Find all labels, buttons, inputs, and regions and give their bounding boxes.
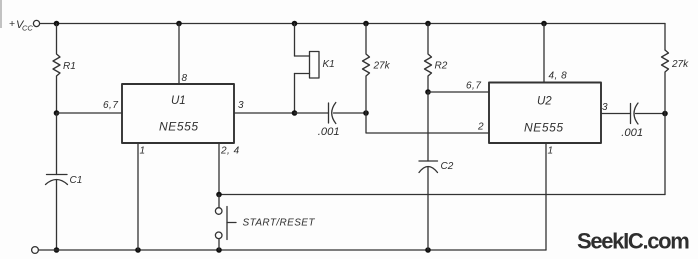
svg-text:START/RESET: START/RESET (243, 218, 316, 229)
resistor R2 (425, 24, 432, 93)
wire bottom return rail (39, 249, 546, 251)
node dot cap/27k junction (363, 110, 369, 116)
wire U2 pins 4,8 to top rail (543, 24, 545, 83)
node dot R2/top rail (425, 21, 431, 27)
node dot C1/bottom rail (54, 247, 60, 253)
terminal bottom-left open circle (32, 247, 39, 254)
resistor 27k no.1 (363, 24, 370, 114)
wire U1 pin 3 output (234, 112, 295, 114)
svg-text:.001: .001 (621, 127, 643, 139)
wire pin3 node to coupling cap (295, 112, 329, 114)
wire U1 pins 6,7 to node A (57, 112, 123, 114)
wire top supply rail (40, 23, 665, 25)
switch START/RESET pushbutton (215, 195, 236, 251)
svg-text:U1: U1 (171, 95, 186, 107)
node A dot R1/C1/pin6,7 junction (54, 110, 60, 116)
svg-text:CC: CC (22, 24, 33, 33)
node dot switch top/reset net (216, 192, 222, 198)
capacitor C2 (419, 92, 438, 250)
svg-text:+: + (9, 18, 15, 30)
node dot 27k no.1/top rail (363, 21, 369, 27)
node dot K1/top rail (292, 21, 298, 27)
wire right rail down from top corner to 27k (664, 24, 666, 51)
wire U1 pins 2,4 down to reset net (218, 143, 220, 195)
node dot U1 pin 8/top rail (176, 21, 182, 27)
svg-text:R2: R2 (435, 61, 448, 72)
node dot K1/pin3 wire (292, 110, 298, 116)
IC U1 NE555 box (122, 84, 234, 143)
node dot cap2/right rail (662, 111, 668, 117)
node dot C2/bottom rail (425, 247, 431, 253)
label +Vcc (9, 18, 33, 33)
svg-text:SeekIC.com: SeekIC.com (577, 229, 689, 254)
node dot R2/C2/pin6,7 junction (425, 89, 431, 95)
terminal +Vcc open circle (33, 20, 39, 26)
wire right rail down to reset net (664, 114, 666, 195)
wire reset net back to switch (219, 194, 665, 196)
svg-text:6,7: 6,7 (103, 100, 118, 111)
svg-text:27k: 27k (373, 61, 391, 72)
resistor R1 (53, 24, 60, 114)
svg-text:6,7: 6,7 (466, 81, 481, 92)
IC U2 NE555 box (489, 83, 601, 144)
capacitor C1 (46, 113, 68, 250)
svg-text:R1: R1 (63, 61, 76, 72)
node dot R1/top rail (54, 21, 60, 27)
wire U2 pin 1 to bottom rail (545, 143, 547, 250)
svg-text:3: 3 (238, 100, 244, 111)
node dot U1 pin1/bottom rail (135, 247, 141, 253)
wire node to U2 pin 2 (366, 113, 489, 133)
svg-text:C2: C2 (441, 161, 454, 172)
svg-text:1: 1 (140, 146, 146, 157)
svg-text:3: 3 (602, 102, 608, 113)
capacitor .001 no.1 (329, 103, 367, 124)
wire U2 pin 3 output (601, 113, 631, 115)
svg-text:4, 8: 4, 8 (549, 71, 568, 82)
svg-text:NE555: NE555 (159, 120, 199, 134)
svg-text:U2: U2 (537, 96, 552, 108)
wire U1 pin 8 to top rail (178, 24, 180, 85)
svg-text:8: 8 (182, 73, 188, 84)
resistor 27k no.2 (662, 50, 669, 114)
relay K1 (295, 24, 320, 114)
wire node to U2 pins 6,7 (428, 91, 489, 93)
svg-text:C1: C1 (70, 175, 83, 186)
scan artifact left edge (0, 0, 2, 28)
svg-text:NE555: NE555 (524, 121, 564, 135)
wire U1 pin 1 to bottom rail (137, 143, 139, 250)
node dot U2 pins 4,8/top rail (541, 21, 547, 27)
svg-text:2, 4: 2, 4 (220, 146, 240, 157)
svg-text:2: 2 (477, 122, 484, 133)
svg-text:1: 1 (548, 146, 554, 157)
node dot switch/bottom rail (216, 247, 222, 253)
svg-text:.001: .001 (318, 126, 340, 138)
svg-text:27k: 27k (671, 59, 689, 70)
svg-text:K1: K1 (323, 59, 335, 70)
capacitor .001 no.2 (631, 103, 666, 124)
